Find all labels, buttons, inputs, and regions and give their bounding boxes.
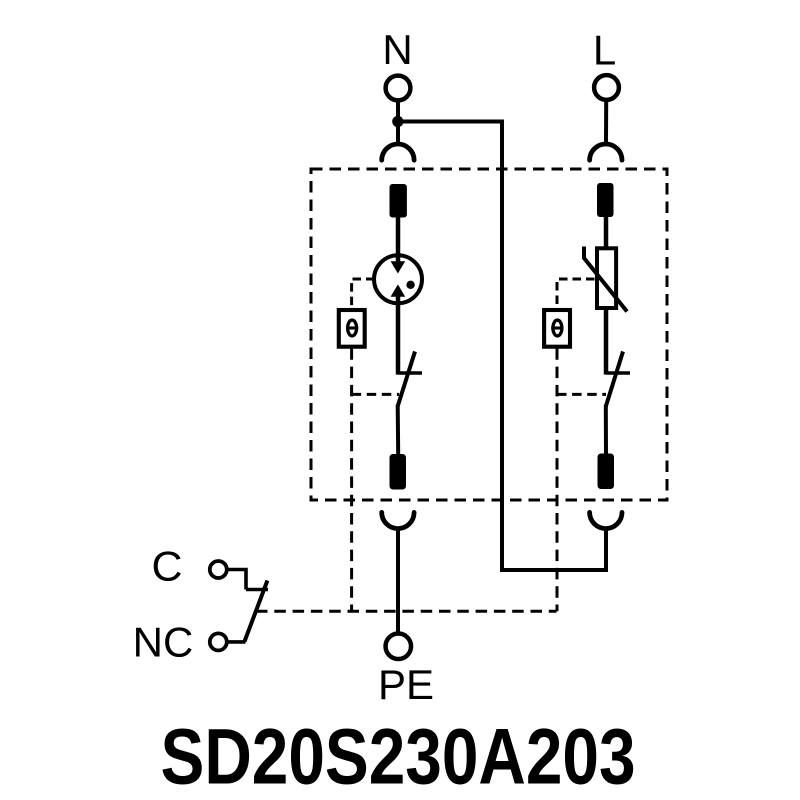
dashed link varistor to thermal sensor	[557, 279, 595, 309]
varistor RV (rect with diagonal)	[584, 247, 627, 312]
svg-text:PE: PE	[378, 661, 434, 708]
gas discharge tube / triggered spark gap G1	[374, 255, 422, 303]
wire NC terminal to blade	[227, 640, 246, 644]
fuse link (black bar), bottom of L branch	[598, 454, 615, 490]
fixed contact tick (remote signalling)	[246, 588, 268, 592]
fuse link (black bar), bottom of N branch	[390, 454, 407, 490]
SPD module enclosure (dashed box)	[311, 169, 667, 500]
dashed trip line from thermal sensor down (L branch)	[556, 348, 559, 611]
wire N terminal to junction	[396, 101, 400, 122]
contact blade C-NC	[245, 581, 268, 642]
dashed trip line from thermal sensor down (N branch)	[350, 348, 353, 611]
wire switch to lower fuse (L branch)	[604, 405, 608, 454]
wire fuse to varistor	[604, 216, 609, 247]
wire C terminal to fixed contact	[227, 570, 246, 590]
plug-in contact arc, top of L branch	[590, 144, 622, 160]
svg-text:SD20S230A203: SD20S230A203	[161, 712, 636, 800]
disconnect switch, L branch (tick + blade)	[606, 352, 631, 407]
wire to PE terminal	[396, 530, 400, 633]
terminal N	[386, 76, 411, 101]
plug-in contact arc, bottom of N branch	[382, 512, 414, 528]
dashed trip branch to left switch blade	[352, 393, 399, 396]
wire fuse to spark gap	[396, 217, 401, 263]
wire spark gap to disconnect switch	[396, 295, 401, 375]
terminal PE	[386, 634, 412, 660]
junction node on N line	[392, 116, 403, 127]
wire L terminal to top plug contact	[604, 101, 608, 143]
terminal L	[594, 75, 619, 100]
plug-in contact arc, top of N branch	[382, 144, 414, 160]
plug-in contact arc, bottom of L branch	[590, 512, 622, 528]
svg-text:C: C	[152, 543, 183, 590]
wire switch to lower fuse (N branch)	[396, 405, 401, 455]
disconnect switch, N branch (tick + blade)	[397, 352, 422, 407]
wire varistor to disconnect switch (L branch)	[604, 309, 609, 375]
thermal sensor box (N branch)	[339, 310, 365, 347]
theta symbol (N branch)	[346, 320, 358, 336]
dashed trip branch to right switch blade	[557, 393, 606, 396]
wire N junction to top plug contact	[396, 122, 400, 143]
fuse link (black bar), top of N branch	[390, 184, 407, 218]
terminal NC	[210, 633, 227, 650]
theta symbol (L branch)	[551, 320, 563, 336]
svg-text:N: N	[382, 26, 412, 73]
fuse link (black bar), top of L branch	[597, 183, 614, 217]
svg-text:L: L	[593, 27, 616, 74]
thermal sensor box (L branch)	[544, 310, 570, 347]
terminal C	[210, 561, 227, 578]
dashed trip line from contact blade to thermal sensors	[256, 610, 557, 613]
wire N bus from junction to L-branch bottom	[398, 122, 606, 571]
dashed link spark gap to thermal sensor	[352, 279, 375, 309]
svg-text:NC: NC	[133, 619, 194, 666]
